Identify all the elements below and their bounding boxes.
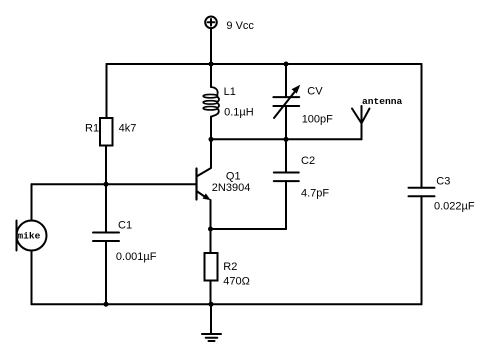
ground: [202, 304, 221, 341]
wire base rail: [32, 183, 197, 185]
wire R1 to base rail: [105, 146, 107, 185]
svg-text:Q1: Q1: [226, 171, 241, 183]
svg-text:CV: CV: [307, 86, 323, 98]
junction base rail / R1 / C1: [104, 182, 109, 187]
svg-text:L1: L1: [224, 86, 236, 98]
svg-text:470Ω: 470Ω: [223, 275, 250, 287]
junction CV / C2: [284, 137, 289, 142]
junction L1 bottom: [209, 137, 214, 142]
svg-text:C2: C2: [301, 155, 315, 167]
junction bottom rail / R2 ground: [209, 302, 214, 307]
svg-text:2N3904: 2N3904: [212, 182, 251, 194]
svg-text:4.7pF: 4.7pF: [301, 188, 329, 200]
svg-text:100pF: 100pF: [302, 114, 333, 126]
junction top rail / CV: [284, 62, 289, 67]
capacitor C2: [274, 139, 299, 229]
svg-text:0.022µF: 0.022µF: [434, 201, 475, 213]
microphone mike: [17, 184, 47, 304]
svg-text:4k7: 4k7: [119, 123, 137, 135]
wire oscillator rail y138: [211, 138, 362, 140]
resistor R1: [100, 118, 113, 146]
svg-text:0.001µF: 0.001µF: [116, 251, 157, 263]
svg-text:9 Vcc: 9 Vcc: [226, 20, 254, 32]
wire Vcc stem: [210, 28, 212, 64]
svg-text:R1: R1: [85, 123, 99, 135]
wire top rail: [107, 63, 422, 65]
antenna: [352, 106, 370, 139]
svg-text:antenna: antenna: [362, 96, 403, 107]
variable capacitor CV: [273, 64, 300, 139]
svg-text:C1: C1: [118, 220, 132, 232]
junction top rail / L1: [209, 62, 214, 67]
transistor Q1: [197, 139, 212, 229]
wire emitter rail: [211, 228, 287, 230]
svg-text:mike: mike: [17, 231, 40, 242]
junction bottom rail / C1: [104, 302, 109, 307]
junction emitter / R2: [208, 227, 213, 232]
power supply +9V terminal: [205, 17, 217, 29]
capacitor C1: [93, 184, 119, 304]
wire top rail left leg to R1: [106, 64, 108, 118]
svg-text:C3: C3: [436, 176, 450, 188]
svg-text:R2: R2: [223, 261, 237, 273]
inductor L1: [203, 64, 219, 139]
resistor R2: [205, 229, 218, 304]
svg-text:0.1µH: 0.1µH: [224, 106, 254, 118]
capacitor C3: [409, 64, 435, 304]
wire bottom rail: [32, 303, 422, 305]
